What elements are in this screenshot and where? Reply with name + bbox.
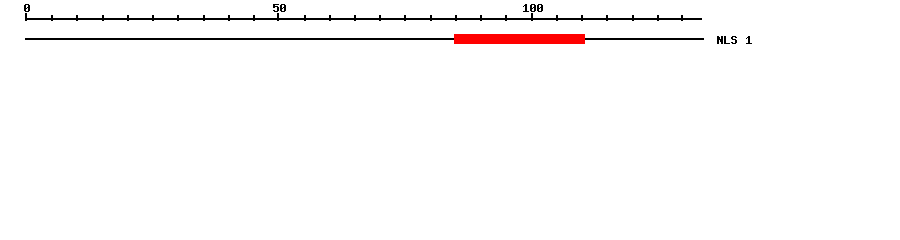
ruler minor tick 95 (505, 15, 507, 21)
ruler minor tick 60 (329, 15, 331, 21)
ruler major tick 100 (531, 13, 533, 21)
ruler minor tick 25 (152, 15, 154, 21)
ruler label 50 (273, 4, 286, 12)
ruler minor tick 130 (681, 15, 683, 21)
ruler minor tick 120 (632, 15, 634, 21)
feature NLS 1 red box (454, 34, 585, 44)
ruler major tick 50 (277, 13, 279, 21)
ruler minor tick 65 (354, 15, 356, 21)
ruler minor tick 20 (127, 15, 129, 21)
ruler label 100 (523, 4, 543, 12)
ruler minor tick 35 (203, 15, 205, 21)
ruler minor tick 55 (304, 15, 306, 21)
ruler baseline (25, 18, 702, 20)
ruler minor tick 5 (51, 15, 53, 21)
sequence line (25, 38, 704, 40)
ruler label 0 (24, 4, 30, 12)
background (0, 0, 900, 58)
ruler minor tick 90 (480, 15, 482, 21)
ruler minor tick 75 (404, 15, 406, 21)
ruler minor tick 30 (177, 15, 179, 21)
ruler minor tick 80 (430, 15, 432, 21)
ruler minor tick 110 (581, 15, 583, 21)
ruler minor tick 85 (455, 15, 457, 21)
ruler minor tick 125 (657, 15, 659, 21)
ruler minor tick 15 (102, 15, 104, 21)
ruler minor tick 115 (606, 15, 608, 21)
ruler minor tick 70 (379, 15, 381, 21)
ruler minor tick 10 (76, 15, 78, 21)
ruler minor tick 40 (228, 15, 230, 21)
feature label NLS 1 (717, 36, 752, 44)
ruler minor tick 105 (556, 15, 558, 21)
ruler major tick 0 (25, 13, 27, 21)
ruler minor tick 45 (253, 15, 255, 21)
